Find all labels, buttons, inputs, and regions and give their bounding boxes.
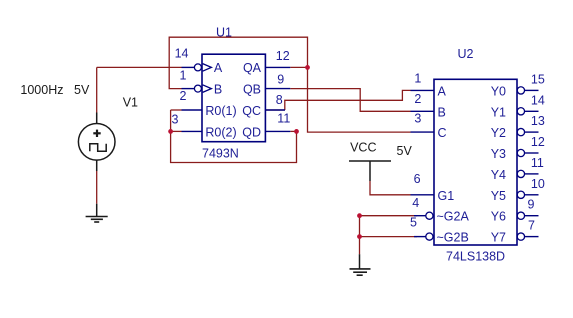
ground under G2 node — [350, 254, 371, 275]
svg-text:9: 9 — [277, 73, 284, 87]
svg-text:3: 3 — [172, 112, 179, 126]
V1 plus sign — [93, 130, 100, 137]
svg-text:Y1: Y1 — [491, 105, 506, 119]
svg-text:3: 3 — [414, 112, 421, 126]
U2 output Y7 (7) — [517, 233, 538, 240]
svg-text:11: 11 — [277, 112, 290, 126]
svg-text:~G2B: ~G2B — [437, 231, 469, 245]
svg-text:R0(1): R0(1) — [205, 104, 236, 118]
U2 output Y4 (11) — [517, 170, 538, 177]
U1 pin lead QA (12) — [265, 66, 290, 68]
svg-text:12: 12 — [531, 135, 545, 149]
svg-text:Y5: Y5 — [491, 189, 506, 203]
svg-text:Y6: Y6 — [491, 210, 506, 224]
svg-text:QA: QA — [243, 61, 262, 75]
U2 output Y0 (15) — [517, 87, 538, 94]
U1 pin lead R0(1) (2) — [182, 109, 203, 111]
svg-text:~G2A: ~G2A — [437, 210, 470, 224]
svg-text:9: 9 — [528, 198, 535, 212]
source V1 body — [78, 113, 115, 172]
wire QD to R0 loop under chip — [171, 110, 297, 163]
svg-text:V1: V1 — [123, 96, 138, 110]
svg-text:13: 13 — [531, 114, 545, 128]
svg-text:2: 2 — [180, 89, 187, 103]
svg-text:U2: U2 — [458, 47, 474, 61]
V1 square wave glyph — [90, 144, 106, 151]
svg-text:74LS138D: 74LS138D — [446, 250, 505, 264]
svg-text:Y7: Y7 — [491, 231, 506, 245]
svg-text:Y2: Y2 — [491, 126, 506, 140]
wire QC lead extension — [265, 109, 284, 111]
svg-text:5V: 5V — [74, 83, 90, 97]
U2 output Y6 (9) — [517, 212, 538, 219]
junction dot R0 node — [168, 129, 173, 134]
junction dot G2B node — [357, 234, 362, 239]
U2 pin lead ~G2A (4) — [414, 212, 433, 219]
wire V1 bottom to ground — [96, 171, 98, 204]
svg-text:5: 5 — [410, 216, 417, 230]
U2 pin lead A (1) — [411, 89, 435, 91]
svg-text:5V: 5V — [397, 144, 413, 158]
wire R0(2) stub — [171, 130, 182, 132]
svg-text:10: 10 — [531, 177, 545, 191]
U2 output Y3 (12) — [517, 149, 538, 156]
svg-text:U1: U1 — [216, 26, 232, 40]
svg-text:B: B — [214, 83, 222, 97]
U2 output Y5 (10) — [517, 191, 538, 198]
wire V1 to U1 pin A — [97, 66, 182, 68]
U1 pin lead QD (11) — [265, 130, 290, 132]
U1 pin lead R0(2) (3) — [182, 130, 203, 132]
wire VCC to U2 G1 — [370, 181, 411, 195]
ground under V1 — [86, 204, 108, 222]
svg-text:Y0: Y0 — [491, 84, 506, 98]
wire V1 top vertical — [96, 67, 98, 112]
junction dot QA node — [305, 65, 310, 70]
wire QA down to U2 pin C — [308, 67, 411, 132]
svg-text:6: 6 — [414, 172, 421, 186]
junction dot QD node — [294, 129, 299, 134]
svg-text:14: 14 — [175, 47, 189, 61]
wire QC to U2 pin A — [285, 90, 411, 110]
svg-text:8: 8 — [276, 93, 283, 107]
wire to ~G2B — [360, 216, 418, 237]
svg-text:VCC: VCC — [350, 140, 376, 154]
svg-text:4: 4 — [412, 196, 419, 210]
svg-text:R0(2): R0(2) — [205, 125, 236, 139]
junction dot G2A node — [357, 213, 362, 218]
svg-text:QC: QC — [242, 104, 261, 118]
svg-text:Y3: Y3 — [491, 147, 506, 161]
wire to ~G2A — [360, 215, 418, 217]
svg-text:1000Hz: 1000Hz — [20, 83, 63, 97]
decoder U2 74LS138D body — [434, 79, 517, 245]
svg-text:QD: QD — [242, 125, 261, 139]
U1 pin lead A (14) — [182, 64, 212, 72]
U2 pin lead C (3) — [411, 131, 435, 133]
wire R0(1) stub — [171, 109, 182, 111]
svg-text:A: A — [438, 84, 447, 98]
svg-text:Y4: Y4 — [491, 168, 506, 182]
U1 pin lead QC (8) — [265, 109, 285, 111]
svg-text:7: 7 — [528, 219, 535, 233]
U2 output Y2 (13) — [517, 128, 538, 135]
power VCC symbol — [349, 161, 391, 181]
svg-text:QB: QB — [243, 83, 261, 97]
svg-text:B: B — [438, 105, 446, 119]
svg-text:1: 1 — [180, 69, 187, 83]
U2 output Y1 (14) — [517, 108, 538, 115]
U1 pin lead QB (9) — [265, 88, 290, 90]
svg-text:12: 12 — [276, 49, 290, 63]
wire QD lead extension — [290, 130, 296, 132]
svg-text:1: 1 — [414, 72, 421, 86]
U2 pin lead B (2) — [411, 110, 435, 112]
wire QA lead extension — [290, 66, 307, 68]
U1 pin lead B (1) — [182, 85, 212, 93]
svg-text:14: 14 — [531, 93, 545, 107]
wire G2 node down to ground — [359, 237, 361, 255]
U2 pin lead ~G2B (5) — [414, 233, 433, 240]
wire QA to U1 pin B (cascade loop over top) — [169, 37, 307, 88]
svg-text:15: 15 — [531, 72, 545, 86]
svg-text:C: C — [438, 126, 447, 140]
svg-text:2: 2 — [414, 92, 421, 106]
wire QB to U2 pin B — [290, 89, 410, 112]
U2 pin lead G1 (6) — [411, 194, 435, 196]
svg-text:11: 11 — [531, 156, 544, 170]
svg-text:7493N: 7493N — [202, 147, 239, 161]
svg-text:G1: G1 — [438, 189, 455, 203]
op U1 7493N counter body — [202, 54, 265, 142]
svg-text:A: A — [214, 61, 223, 75]
